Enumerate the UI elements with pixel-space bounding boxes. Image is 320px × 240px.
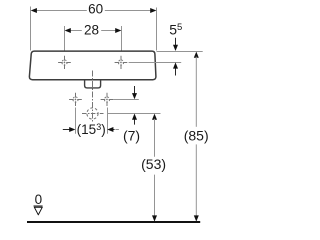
dimension (7) upper arrow (down) <box>134 86 136 94</box>
dimension 28 arrow left <box>65 28 71 33</box>
dimension (53) line upper part <box>152 114 157 120</box>
faucet height extension line to right <box>129 62 182 64</box>
dimension 5^5 upper arrow (down) <box>175 38 177 46</box>
dimension (53) line lower part <box>154 175 156 217</box>
datum triangle <box>34 207 42 215</box>
dimension 60 extension line right <box>156 8 158 51</box>
mounting hole height extension line <box>113 99 139 101</box>
dimension (15.3) right arrow (pointing left) <box>107 127 113 132</box>
floor line <box>27 221 200 223</box>
svg-text:28: 28 <box>84 22 99 37</box>
drain outlet horizontal centerline <box>82 113 104 115</box>
svg-text:0: 0 <box>35 192 43 207</box>
washbasin body outline <box>29 51 156 80</box>
dimension (85) line upper part <box>194 52 199 58</box>
faucet hole crosshair left <box>58 56 71 69</box>
dimension 28 arrow right <box>115 28 121 33</box>
drain outlet dashed circle <box>87 108 98 119</box>
dimension (85) line lower part <box>195 144 197 216</box>
dimension (15.3) extension line right <box>107 108 109 134</box>
dimension (15.3) extension line left <box>75 108 77 134</box>
mounting hole crosshair right <box>101 93 114 106</box>
dimension 28 extension line right <box>121 26 123 55</box>
svg-text:60: 60 <box>88 2 103 17</box>
dimension 60 arrow left <box>31 8 37 13</box>
drain centerline vertical <box>92 71 94 123</box>
faucet hole crosshair right <box>115 56 128 69</box>
dimension (15.3) left arrow (pointing right) <box>63 129 71 131</box>
drain height extension line <box>107 113 161 115</box>
dimension 28 line <box>70 30 82 32</box>
svg-text:(7): (7) <box>123 127 140 143</box>
svg-text:(85): (85) <box>184 127 209 143</box>
siphon trap outline <box>85 80 101 88</box>
dimension 5^5 lower arrow (up) <box>173 62 178 68</box>
dimension (7) lower arrow (up) <box>132 114 137 120</box>
dimension 28 extension line left <box>64 26 66 55</box>
dimension 60 arrow right <box>150 8 156 13</box>
dimension 60 extension line left <box>30 7 32 51</box>
datum line under 0 <box>34 205 43 207</box>
svg-text:(53): (53) <box>141 156 166 172</box>
top rim extension line to right <box>157 51 203 53</box>
dimension 60 line <box>36 10 87 12</box>
mounting hole crosshair left <box>69 93 82 106</box>
svg-text:(153): (153) <box>77 122 106 137</box>
